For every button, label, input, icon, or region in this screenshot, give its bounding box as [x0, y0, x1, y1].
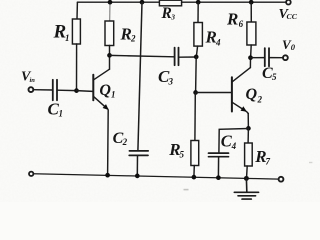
svg-text:1: 1 [111, 89, 116, 99]
svg-text:R: R [120, 24, 132, 43]
wire to C5 [251, 57, 265, 59]
capacitor C5 [265, 48, 269, 66]
svg-text:1: 1 [65, 33, 70, 43]
svg-text:4: 4 [215, 37, 221, 47]
resistor R1 [72, 2, 80, 90]
transistor Q1 [93, 69, 109, 110]
resistor R4 [194, 2, 203, 57]
scan smudge [309, 162, 312, 163]
junction node rail-R6 [249, 0, 254, 5]
capacitor C1 [53, 80, 57, 101]
junction node R5-rail [192, 175, 197, 180]
junction node B2 [194, 55, 199, 60]
svg-text:7: 7 [266, 156, 271, 166]
svg-text:6: 6 [239, 19, 244, 29]
junction node Q2 base [193, 90, 198, 95]
transistor Q2 [232, 68, 251, 114]
svg-text:1: 1 [59, 109, 64, 119]
wire Q1 collector lead [109, 55, 111, 69]
junction node ground-rail [244, 176, 249, 181]
wire base node to Q2 [196, 92, 232, 94]
svg-text:R: R [226, 10, 238, 29]
terminal V0 [283, 55, 288, 60]
junction node Q1 collector [107, 53, 112, 58]
svg-text:5: 5 [272, 72, 277, 82]
terminal output ground side [279, 177, 284, 182]
svg-text:CC: CC [287, 12, 298, 21]
wire Q2 collector lead [249, 58, 251, 68]
capacitor C3 [175, 48, 179, 66]
wire bottom rail [33, 174, 279, 179]
wire top rail right segment [182, 1, 287, 3]
svg-text:2: 2 [122, 137, 128, 147]
junction node rail-R2 [108, 0, 113, 5]
svg-text:3: 3 [170, 13, 175, 22]
terminal Vcc [286, 0, 291, 5]
terminal Vin [29, 87, 34, 92]
svg-text:Q: Q [99, 82, 111, 99]
wire top rail left segment [78, 1, 160, 3]
junction node Q1 emitter-rail [105, 173, 110, 178]
resistor R7 [245, 128, 253, 178]
wire collector to C3 [110, 55, 175, 56]
wire C5 to output [270, 57, 284, 59]
wire C3 to node B2 [179, 56, 196, 58]
svg-text:Q: Q [246, 86, 258, 103]
resistor R3 [159, 0, 181, 6]
wire node B2 down [195, 57, 198, 93]
junction node C4-rail [216, 175, 221, 180]
capacitor C4 [209, 153, 229, 178]
svg-text:in: in [30, 77, 36, 84]
junction node Q1 base [74, 88, 79, 93]
resistor R6 [247, 2, 256, 58]
terminal input ground side [29, 172, 33, 176]
wire Q2 emitter lead [247, 113, 249, 128]
junction node rail-C2 [140, 0, 145, 5]
wire Vin to C1 [33, 89, 52, 91]
svg-text:3: 3 [168, 77, 174, 87]
junction node C2-rail [135, 174, 140, 179]
wire base node to Q1 [77, 90, 93, 93]
scan smudge [184, 189, 189, 191]
svg-text:5: 5 [180, 149, 185, 159]
junction node rail-R4 [196, 0, 201, 5]
wire C1 to base node [57, 89, 76, 91]
resistor R2 [105, 2, 114, 55]
svg-text:4: 4 [231, 141, 237, 151]
svg-text:2: 2 [130, 34, 136, 44]
junction node Q2 emitter [246, 126, 251, 131]
svg-text:R: R [205, 27, 217, 46]
svg-text:R: R [161, 5, 172, 22]
resistor R5 [191, 93, 199, 178]
junction node Q2 collector [248, 55, 253, 60]
wire emitter node to C4 [219, 129, 249, 154]
svg-text:0: 0 [291, 42, 296, 52]
wire Q1 emitter lead [107, 110, 110, 175]
ground [234, 178, 258, 199]
capacitor C2 [129, 2, 148, 176]
svg-text:2: 2 [257, 94, 263, 104]
